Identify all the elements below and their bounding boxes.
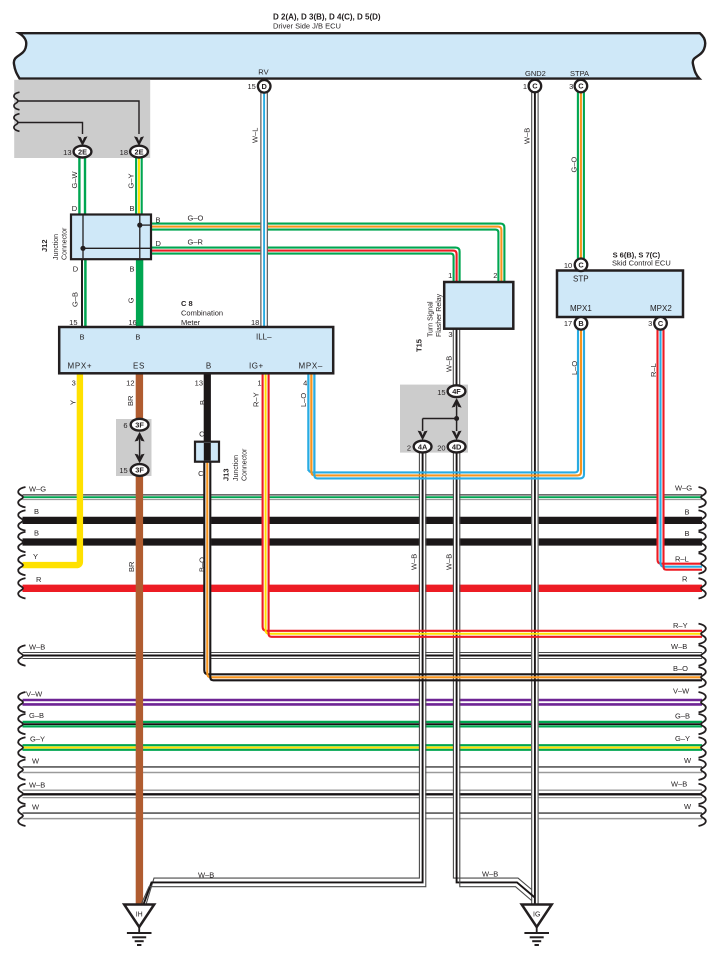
svg-text:D 2(A), D 3(B), D 4(C), D 5(D): D 2(A), D 3(B), D 4(C), D 5(D) xyxy=(273,12,381,21)
gray shade box for 4F/4A/4D connectors xyxy=(400,385,468,453)
wire G from J12 to combination meter pin 16 xyxy=(136,259,143,328)
svg-text:G–B: G–B xyxy=(71,292,80,307)
svg-text:17: 17 xyxy=(564,319,572,328)
svg-text:R: R xyxy=(682,575,688,584)
svg-text:W–B: W–B xyxy=(410,554,419,570)
ground IH xyxy=(124,905,154,928)
wire W-B from 4A down then left to ground IH xyxy=(420,452,425,879)
svg-text:3: 3 xyxy=(448,330,452,339)
svg-text:Turn Signal: Turn Signal xyxy=(428,301,435,337)
skid STP pin 10 C xyxy=(575,259,588,272)
svg-text:G–R: G–R xyxy=(188,237,204,246)
svg-text:Y: Y xyxy=(69,400,78,405)
J/B pin GND2 1 C xyxy=(529,80,542,93)
svg-text:Y: Y xyxy=(33,552,38,561)
svg-text:W: W xyxy=(684,802,692,811)
arrow into 4F xyxy=(452,398,462,408)
svg-text:B: B xyxy=(135,332,140,341)
svg-text:16: 16 xyxy=(128,318,136,327)
wire W-B from flasher relay pin 3 to 4F xyxy=(453,329,461,386)
svg-text:W–G: W–G xyxy=(675,484,692,493)
svg-text:C: C xyxy=(578,261,584,270)
wire Y from meter MPX+ pin 3 to left edge xyxy=(23,374,80,566)
wire G-W from 2E(13) to J12 xyxy=(78,157,80,215)
svg-text:G–Y: G–Y xyxy=(30,735,45,744)
connector 3F pin 6 xyxy=(131,419,149,431)
svg-text:15: 15 xyxy=(119,466,127,475)
svg-text:GND2: GND2 xyxy=(525,69,546,78)
svg-text:J13: J13 xyxy=(222,468,231,481)
junction connector J13 xyxy=(195,442,219,462)
svg-text:18: 18 xyxy=(251,318,259,327)
svg-text:G–O: G–O xyxy=(570,156,579,172)
svg-text:Connector: Connector xyxy=(62,227,69,260)
svg-text:Meter: Meter xyxy=(181,318,201,327)
wire W-L from J/B RV pin 15 to meter pin 18 xyxy=(260,93,268,328)
svg-text:Junction: Junction xyxy=(53,234,60,260)
torn ends of 2E branch wires xyxy=(14,92,20,110)
svg-text:J12: J12 xyxy=(40,239,49,252)
wire W horizontal bus row 1 xyxy=(23,766,703,768)
svg-text:R–Y: R–Y xyxy=(252,392,261,407)
wire W-G horizontal bus row xyxy=(23,494,703,496)
svg-text:STP: STP xyxy=(573,274,589,283)
svg-text:15: 15 xyxy=(247,82,255,91)
svg-text:B: B xyxy=(198,400,207,405)
svg-text:W–B: W–B xyxy=(445,356,454,372)
connector 4D pin 20 xyxy=(448,441,466,453)
wire W-B from J/B GND2 pin 1 down to ground IG xyxy=(531,92,539,904)
gray shade box for 3F connectors xyxy=(116,419,152,476)
svg-text:B: B xyxy=(685,529,690,538)
ground IG xyxy=(522,905,552,928)
svg-text:C: C xyxy=(199,430,205,439)
svg-text:W–B: W–B xyxy=(29,781,45,790)
wire R horizontal bus row xyxy=(23,585,703,592)
connector 2E pin 18 xyxy=(130,146,148,158)
svg-text:R: R xyxy=(36,575,42,584)
wire B-O from J13 down then right to right edge xyxy=(204,462,702,675)
gray shade box for 2E connectors xyxy=(14,80,150,158)
svg-text:Combination: Combination xyxy=(181,309,223,318)
svg-text:B: B xyxy=(129,265,134,274)
connector 3F pin 15 xyxy=(131,464,149,476)
wire R-Y from meter IG+ pin 1 to right edge xyxy=(263,374,702,631)
wire BR from 3F(15) down to ground IH xyxy=(136,470,143,905)
svg-text:R–Y: R–Y xyxy=(673,621,688,630)
svg-text:2E: 2E xyxy=(134,147,143,156)
svg-text:D: D xyxy=(72,204,78,213)
wire R-Y vertical white backing xyxy=(262,374,270,634)
svg-text:ES: ES xyxy=(133,362,145,371)
svg-text:C: C xyxy=(578,82,584,91)
svg-text:W–B: W–B xyxy=(671,642,687,651)
svg-text:Junction: Junction xyxy=(233,455,240,481)
svg-text:D: D xyxy=(73,265,79,274)
junction connector J12 xyxy=(71,215,151,260)
svg-text:G–Y: G–Y xyxy=(675,734,690,743)
svg-text:B: B xyxy=(34,507,39,516)
svg-text:Skid Control ECU: Skid Control ECU xyxy=(612,259,671,268)
svg-text:B: B xyxy=(685,507,690,516)
svg-text:2: 2 xyxy=(493,271,497,280)
svg-text:V–W: V–W xyxy=(26,689,43,698)
node: J12 G-R tap xyxy=(80,246,85,251)
wire B horizontal bus row 1 xyxy=(23,517,703,524)
svg-text:3F: 3F xyxy=(135,420,144,429)
svg-text:V–W: V–W xyxy=(673,687,690,696)
connector 2E pin 13 xyxy=(74,146,92,158)
wire R-L white backing xyxy=(657,330,665,567)
wire G-Y horizontal bus row xyxy=(23,744,703,746)
wire W-B horizontal bus row xyxy=(23,652,703,654)
skid MPX1 pin 17 B xyxy=(575,317,588,330)
svg-text:Driver Side J/B ECU: Driver Side J/B ECU xyxy=(273,22,341,31)
svg-text:C: C xyxy=(198,469,204,478)
svg-text:1: 1 xyxy=(448,271,452,280)
svg-text:RV: RV xyxy=(258,67,268,76)
svg-text:C: C xyxy=(658,319,664,328)
svg-text:10: 10 xyxy=(564,261,572,270)
svg-text:4D: 4D xyxy=(452,442,462,451)
svg-text:W: W xyxy=(684,756,692,765)
wire G-O from J/B STPA pin 3 to skid STP pin 10 xyxy=(577,92,579,258)
svg-text:W: W xyxy=(32,803,40,812)
svg-text:4A: 4A xyxy=(418,442,428,451)
wire V-W horizontal bus row xyxy=(23,699,703,702)
wire W-B from 4D down then right to ground IG xyxy=(454,452,459,879)
driver side J/B ECU bus bar xyxy=(14,33,705,78)
wire W horizontal bus row 2 xyxy=(23,812,703,814)
svg-text:R–L: R–L xyxy=(649,363,658,377)
svg-text:MPX2: MPX2 xyxy=(650,304,672,313)
svg-text:C: C xyxy=(532,82,538,91)
skid MPX2 pin 3 C xyxy=(654,317,667,330)
svg-text:W–B: W–B xyxy=(671,779,687,788)
svg-text:G–B: G–B xyxy=(29,711,44,720)
J/B pin RV 15 D xyxy=(258,80,271,93)
svg-text:R–L: R–L xyxy=(675,554,689,563)
svg-text:6: 6 xyxy=(123,421,127,430)
wire L-O from skid MPX1 pin 17 down xyxy=(577,330,579,471)
svg-text:Connector: Connector xyxy=(242,448,249,481)
wire G-B from J12 to combination meter pin 15 xyxy=(81,259,83,328)
svg-text:4F: 4F xyxy=(452,387,461,396)
svg-text:B: B xyxy=(129,204,134,213)
svg-text:3: 3 xyxy=(72,379,76,388)
wire W-B horizontal bus row 2 xyxy=(23,789,703,791)
svg-text:W–B: W–B xyxy=(523,128,532,144)
svg-text:3: 3 xyxy=(648,319,652,328)
connector 4F pin 15 xyxy=(448,385,466,397)
skid control ECU xyxy=(557,271,683,318)
svg-text:MPX+: MPX+ xyxy=(68,362,93,371)
svg-text:G–W: G–W xyxy=(70,170,79,188)
svg-text:B: B xyxy=(578,319,583,328)
svg-text:Flasher Relay: Flasher Relay xyxy=(436,293,443,337)
svg-text:BR: BR xyxy=(127,561,136,572)
node: 4F/4A/4D branch junction xyxy=(454,416,459,421)
svg-text:15: 15 xyxy=(437,388,445,397)
svg-text:W: W xyxy=(32,757,40,766)
svg-text:12: 12 xyxy=(126,379,134,388)
svg-text:G–O: G–O xyxy=(188,214,204,223)
svg-text:G–Y: G–Y xyxy=(127,173,136,188)
wire G-O from J12 pin B to flasher relay pin 2 xyxy=(151,224,504,283)
svg-text:T15: T15 xyxy=(415,339,424,352)
wire L-O vertical from meter MPX- pin 4 xyxy=(307,374,309,472)
2E branch wires inside gray box xyxy=(17,101,139,134)
arrow into 4D xyxy=(452,431,462,441)
svg-text:B: B xyxy=(34,529,39,538)
svg-text:4: 4 xyxy=(303,379,307,388)
wire B from meter pin 13 to J13 xyxy=(204,374,211,443)
svg-text:1: 1 xyxy=(523,82,527,91)
svg-text:1: 1 xyxy=(257,379,261,388)
svg-text:D: D xyxy=(262,82,268,91)
wire G-B horizontal bus row xyxy=(23,721,703,723)
wire L-O horizontal link meter MPX- to skid MPX1 xyxy=(308,340,578,472)
svg-text:W–G: W–G xyxy=(29,484,46,493)
wire B horizontal bus row 2 xyxy=(23,538,703,545)
svg-text:2: 2 xyxy=(407,444,411,453)
svg-text:13: 13 xyxy=(63,148,71,157)
svg-text:B: B xyxy=(79,332,84,341)
svg-text:W–L: W–L xyxy=(251,128,260,143)
arrow into 2E(18) xyxy=(134,136,144,146)
svg-text:IH: IH xyxy=(136,912,143,919)
svg-text:L–O: L–O xyxy=(570,361,579,375)
svg-text:B: B xyxy=(156,216,161,225)
svg-text:2E: 2E xyxy=(78,147,87,156)
node: J12 G-O tap xyxy=(137,223,142,228)
turn signal flasher relay T15 xyxy=(444,282,513,329)
svg-text:IG+: IG+ xyxy=(249,362,264,371)
double arrow between 3F connectors xyxy=(135,432,145,442)
svg-text:W–B: W–B xyxy=(445,554,454,570)
svg-text:W–B: W–B xyxy=(29,643,45,652)
J/B pin STPA 3 C xyxy=(575,80,588,93)
svg-text:L–O: L–O xyxy=(299,393,308,407)
svg-text:15: 15 xyxy=(69,318,77,327)
svg-text:18: 18 xyxy=(120,148,128,157)
svg-text:IG: IG xyxy=(533,912,540,919)
svg-text:W–B: W–B xyxy=(482,869,498,878)
svg-text:ILL–: ILL– xyxy=(256,333,272,342)
svg-text:MPX1: MPX1 xyxy=(570,304,592,313)
svg-text:3F: 3F xyxy=(135,466,144,475)
svg-text:D: D xyxy=(156,239,162,248)
svg-text:3: 3 xyxy=(569,82,573,91)
wire B-O vertical white backing xyxy=(204,462,212,678)
svg-text:B–O: B–O xyxy=(673,664,688,673)
svg-text:C 8: C 8 xyxy=(181,299,193,308)
svg-text:20: 20 xyxy=(437,444,445,453)
combination meter C8 xyxy=(59,327,333,373)
svg-text:G: G xyxy=(126,297,135,303)
wire G-R from J12 pin D to flasher relay pin 1 xyxy=(151,248,460,283)
svg-text:B–O: B–O xyxy=(198,557,207,572)
svg-text:13: 13 xyxy=(195,379,203,388)
wire R-L from skid MPX2 pin 3 to right edge xyxy=(658,330,703,564)
svg-text:W–B: W–B xyxy=(198,871,214,880)
svg-text:STPA: STPA xyxy=(570,69,589,78)
wire BR from meter ES pin 12 to 3F(6) xyxy=(136,374,143,426)
svg-text:BR: BR xyxy=(126,395,135,406)
arrow into 2E(13) xyxy=(78,136,88,146)
wire G-Y from 2E(18) to J12 xyxy=(135,157,137,215)
svg-text:G–B: G–B xyxy=(675,712,690,721)
svg-text:B: B xyxy=(206,362,211,371)
arrow into 4A xyxy=(418,431,428,441)
svg-text:MPX–: MPX– xyxy=(299,362,324,371)
connector 4A pin 2 xyxy=(414,441,432,453)
